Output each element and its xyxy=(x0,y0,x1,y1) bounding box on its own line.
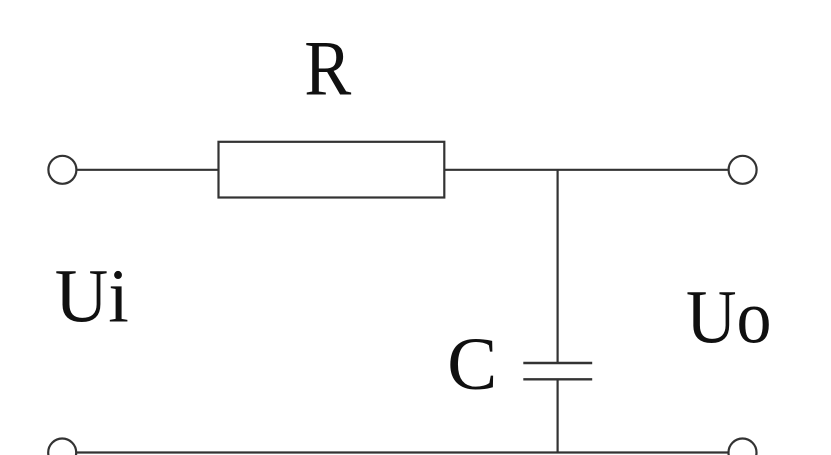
terminal output bottom xyxy=(729,439,757,455)
resistor R xyxy=(219,142,445,198)
svg-text:Ui: Ui xyxy=(55,255,129,339)
wire bottom rail xyxy=(77,451,729,453)
terminal output top xyxy=(729,156,757,184)
capacitor C bottom plate xyxy=(523,378,592,380)
capacitor C top plate xyxy=(523,362,592,364)
terminal input top xyxy=(48,156,76,184)
wire capacitor bottom plate to bottom rail xyxy=(556,379,558,452)
wire resistor to output xyxy=(444,169,728,171)
wire input to resistor xyxy=(77,169,219,171)
terminal input bottom xyxy=(48,439,76,455)
svg-text:C: C xyxy=(447,323,497,406)
wire node to capacitor top plate xyxy=(556,170,558,363)
svg-text:Uo: Uo xyxy=(686,276,772,360)
svg-text:R: R xyxy=(304,25,351,112)
